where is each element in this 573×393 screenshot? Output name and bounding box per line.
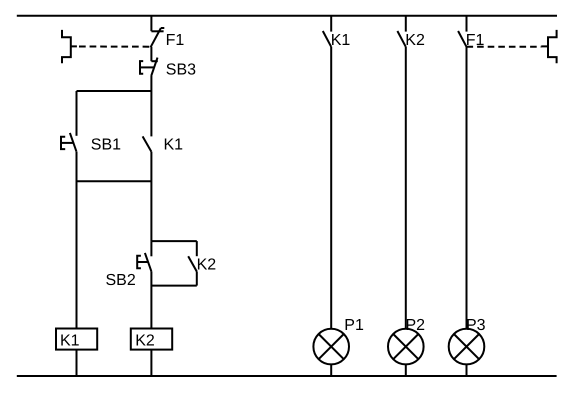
contact K1 (NO lamp P1) <box>323 31 331 47</box>
pushbutton SB2 (NO) <box>137 241 151 271</box>
wire lamp P3 to bottom rail <box>466 364 468 376</box>
svg-text:K2: K2 <box>405 32 425 49</box>
contact F1 auxiliary (NO lamp P3) <box>458 31 466 47</box>
wire bottom rail <box>17 375 557 377</box>
svg-text:K1: K1 <box>60 333 80 350</box>
svg-text:P2: P2 <box>406 317 426 334</box>
mechanical linkage dashed wire right <box>467 46 542 48</box>
wire K1 contact down <box>150 152 152 241</box>
svg-text:P3: P3 <box>466 317 486 334</box>
wire K2 coil to bottom rail <box>150 350 152 376</box>
wire F1 aux to lamp P3 <box>466 47 468 329</box>
wire SB3 down to K1 contact <box>150 76 152 136</box>
wire rail to contact F1 aux <box>466 16 468 32</box>
pushbutton SB1 (NO start) <box>61 133 77 152</box>
coil K1 <box>56 329 97 350</box>
pushbutton SB3 (NC stop) <box>140 58 158 76</box>
wire SB2 to K2 coil <box>150 271 152 328</box>
contact K2 (NO) <box>188 241 197 286</box>
wire rail to contact K2 lamp branch <box>405 16 407 32</box>
wire lamp P2 to bottom rail <box>405 364 407 376</box>
wire top rail <box>17 15 557 17</box>
wire parallel branch bottom <box>151 285 196 287</box>
svg-text:F1: F1 <box>166 32 185 49</box>
wire K1 coil to bottom rail <box>76 350 78 376</box>
wire parallel branch top <box>151 240 196 242</box>
wire branch bottom horizontal <box>77 180 152 182</box>
svg-text:SB3: SB3 <box>166 62 196 79</box>
svg-text:K1: K1 <box>164 137 184 154</box>
breaker F1 contact <box>151 28 165 47</box>
contact K1 (NO self-holding) <box>143 136 152 151</box>
lamp P3 <box>449 329 485 365</box>
lamp P1 <box>313 329 349 365</box>
svg-text:K2: K2 <box>197 256 217 273</box>
svg-text:SB2: SB2 <box>106 272 136 289</box>
mechanical linkage dashed wire left <box>79 46 150 48</box>
wire top rail to F1 <box>150 16 152 32</box>
svg-text:SB1: SB1 <box>91 137 121 154</box>
svg-text:K1: K1 <box>331 32 351 49</box>
wire branch top horizontal <box>77 90 152 92</box>
wire F1 to SB3 <box>150 47 152 61</box>
breaker handle bracket left <box>62 30 77 63</box>
svg-text:K2: K2 <box>135 333 155 350</box>
lamp P2 <box>388 329 424 365</box>
wire lamp P1 to bottom rail <box>330 364 332 376</box>
svg-text:P1: P1 <box>344 317 364 334</box>
coil K2 <box>131 329 172 350</box>
wire K1 contact to lamp P1 <box>330 47 332 329</box>
wire left branch down to SB1 <box>76 91 78 136</box>
wire SB1 to lower junction <box>76 152 78 329</box>
wire rail to contact K1 lamp branch <box>330 16 332 32</box>
wire K2 contact to lamp P2 <box>405 47 407 329</box>
breaker handle bracket right <box>541 30 556 63</box>
contact K2 (NO lamp P2) <box>397 31 405 47</box>
